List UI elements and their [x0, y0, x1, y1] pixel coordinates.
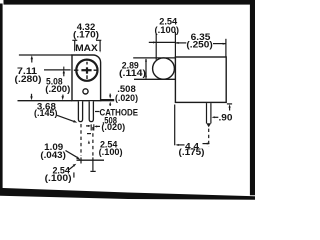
dimension bracket MAX left [72, 40, 77, 50]
collar bottom line [134, 78, 175, 80]
dimension 7.11 top arrow [31, 55, 33, 59]
svg-text:MAX: MAX [75, 43, 98, 54]
lens circle [76, 60, 97, 81]
svg-text:.90: .90 [219, 112, 233, 123]
pin (side) [206, 103, 208, 123]
lead 1 (front) [78, 101, 82, 121]
svg-text:(.020): (.020) [101, 122, 125, 133]
dimension .508 tab thickness arrows [109, 95, 111, 98]
dimension line lead spacing (bottom) [77, 159, 105, 161]
small index circle [83, 89, 88, 94]
dimension 4.4 left arrow [175, 144, 178, 146]
cathode tab (right side of body) [101, 99, 115, 101]
dimension 4.4 extension line [174, 105, 176, 146]
svg-text:(.280): (.280) [15, 74, 42, 85]
lead 2 cathode (front) [89, 101, 93, 121]
dimension 4.4 right arrow [203, 143, 208, 145]
svg-text:(.043): (.043) [40, 150, 66, 161]
LED body outline (front) [72, 55, 101, 101]
LED body (side) [175, 57, 226, 102]
dimension .508 lead width arrows [86, 125, 88, 127]
lead 2 centerline bottom tick [90, 170, 95, 172]
dome lens (side) [153, 58, 175, 79]
svg-text:(.100): (.100) [99, 147, 123, 158]
lead 1 centerline (dashed) [80, 124, 82, 156]
svg-text:(.170): (.170) [73, 29, 99, 40]
leader 2.54 bottom-left [68, 166, 73, 170]
dimension 5.08 bottom arrow [62, 96, 64, 100]
dimension 7.11 bottom arrow [30, 96, 32, 100]
CATHODE leader [95, 111, 100, 113]
svg-text:(.250): (.250) [186, 40, 212, 51]
lead 2 centerline (dashed) [92, 127, 94, 156]
lens centerline (horizontal) [44, 69, 71, 71]
extension line: body bottom / seating plane [18, 100, 73, 102]
dimension 2.54 line+arrow [149, 41, 176, 43]
dimension 5.08 top arrow [63, 70, 65, 74]
lens crosshair vertical [86, 62, 88, 65]
lens crosshair horizontal [74, 69, 79, 71]
svg-text:(.020): (.020) [115, 93, 138, 104]
dimension 6.35 line+arrows [175, 42, 186, 44]
collar top line [133, 57, 175, 59]
svg-text:(.175): (.175) [179, 147, 205, 158]
svg-text:(.145): (.145) [34, 108, 58, 119]
pin centerline dashed [208, 129, 210, 147]
scan border bars [0, 0, 255, 200]
dimension bracket MAX right [96, 40, 101, 50]
svg-text:(.114): (.114) [119, 68, 146, 79]
dimension 2.89 [145, 59, 147, 78]
leader 1.09 [66, 151, 78, 158]
svg-text:(.200): (.200) [45, 84, 70, 95]
leader 3.68 to lead end [57, 115, 75, 121]
svg-text:(.100): (.100) [155, 25, 180, 36]
extension line: body top [19, 54, 72, 56]
.90 leader arrow [214, 116, 218, 118]
T mark with up arrow [227, 103, 232, 105]
svg-text:(.100): (.100) [45, 173, 72, 184]
tick + up arrow for 2.54 right [87, 133, 91, 135]
top dimension extension lines [155, 34, 157, 60]
